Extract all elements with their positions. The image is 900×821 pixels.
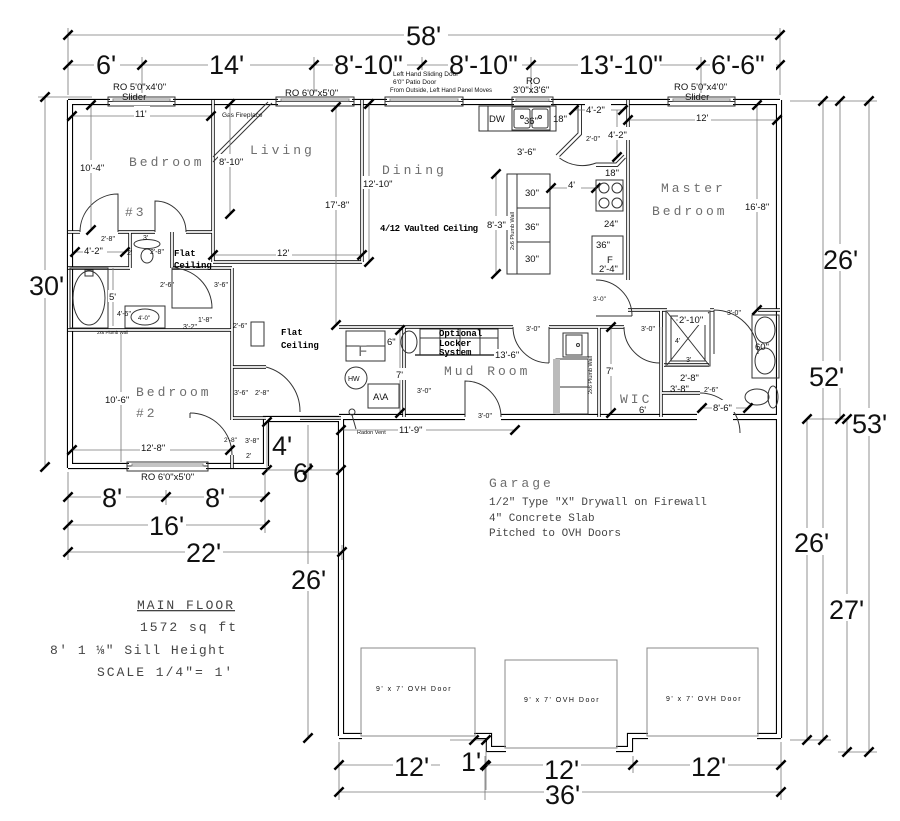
kitchen counter top: [479, 106, 556, 131]
svg-text:4': 4': [568, 180, 575, 191]
dim 4': [266, 422, 268, 470]
svg-text:WIC: WIC: [620, 392, 652, 407]
dim 6': [267, 469, 341, 471]
fridge: [592, 236, 623, 275]
svg-text:2': 2': [246, 453, 251, 460]
svg-text:4'-2": 4'-2": [586, 105, 605, 116]
svg-text:4': 4': [272, 431, 292, 461]
dim 53': [868, 101, 870, 752]
svg-text:2x6 Plumb Wall: 2x6 Plumb Wall: [97, 330, 128, 335]
toilet room fixtures: [134, 235, 164, 263]
svg-text:3': 3': [143, 235, 148, 242]
dim 11'-9": [336, 422, 519, 436]
svg-text:11'-9": 11'-9": [399, 425, 423, 436]
svg-text:4" Concrete Slab: 4" Concrete Slab: [489, 513, 595, 525]
radon vent: [349, 409, 355, 415]
svg-text:3'-0": 3'-0": [593, 296, 607, 303]
svg-text:1572 sq ft: 1572 sq ft: [140, 620, 238, 635]
extension lines top: [68, 28, 780, 95]
svg-text:7': 7': [396, 370, 403, 381]
svg-text:Left Hand Sliding Door: Left Hand Sliding Door: [393, 71, 459, 78]
svg-text:Flat: Flat: [174, 249, 196, 259]
svg-text:4'-6": 4'-6": [117, 311, 131, 318]
svg-text:2'-6": 2'-6": [233, 323, 247, 330]
dim 26' (garage left): [307, 425, 309, 738]
kitchen island: [507, 174, 550, 274]
svg-text:2'-6": 2'-6": [704, 387, 718, 394]
svg-text:58': 58': [406, 21, 441, 51]
svg-text:52': 52': [809, 362, 844, 392]
svg-text:12'-10": 12'-10": [363, 179, 392, 190]
dim 8'-3" island: [486, 169, 510, 278]
dim 17'-8": [324, 102, 354, 329]
svg-text:3'-6": 3'-6": [517, 147, 536, 158]
svg-text:3'0"x3'6": 3'0"x3'6": [513, 85, 549, 96]
svg-text:30": 30": [525, 188, 539, 199]
svg-text:3'-8": 3'-8": [670, 384, 689, 395]
svg-text:2'-0": 2'-0": [586, 136, 600, 143]
svg-text:27': 27': [829, 595, 864, 625]
patio door: [385, 97, 463, 106]
svg-text:26': 26': [823, 245, 858, 275]
AA unit: [368, 384, 399, 408]
svg-text:6'0" Patio Door: 6'0" Patio Door: [393, 79, 437, 86]
OVH door 3: [647, 648, 758, 736]
dim 5' tub: [108, 268, 120, 326]
svg-text:3'-0": 3'-0": [641, 326, 655, 333]
svg-text:SCALE 1/4"= 1': SCALE 1/4"= 1': [97, 665, 234, 680]
fireplace diagonal: [213, 102, 272, 162]
svg-text:Bedroom: Bedroom: [136, 385, 212, 400]
svg-text:9' x 7' OVH Door: 9' x 7' OVH Door: [376, 686, 452, 693]
dim 1': [450, 739, 486, 741]
svg-text:HW: HW: [348, 376, 360, 383]
svg-text:8'-3": 8'-3": [487, 220, 506, 231]
dim 27': [846, 419, 848, 752]
svg-text:11': 11': [135, 109, 147, 120]
svg-text:53': 53': [852, 409, 887, 439]
svg-text:2'-8": 2'-8": [150, 249, 164, 256]
svg-text:2x6 Plumb Wall: 2x6 Plumb Wall: [588, 356, 594, 394]
extension lines: [338, 742, 340, 800]
svg-text:DW: DW: [489, 114, 505, 125]
svg-text:8'-10": 8'-10": [219, 157, 243, 168]
svg-text:Master: Master: [661, 181, 726, 196]
svg-text:4'-0": 4'-0": [138, 316, 150, 322]
svg-text:3': 3': [686, 357, 691, 364]
dim row 2: [63, 50, 784, 80]
svg-text:3'-8": 3'-8": [245, 438, 259, 445]
window W4 master slider: [668, 97, 735, 106]
svg-text:Bedroom: Bedroom: [652, 204, 728, 219]
svg-text:5': 5': [109, 292, 116, 303]
svg-text:Flat: Flat: [281, 328, 303, 338]
bath door arc: [700, 393, 740, 433]
dim 7' utility: [395, 325, 407, 417]
svg-text:12': 12': [696, 113, 709, 124]
svg-text:12': 12': [691, 752, 726, 782]
svg-text:12': 12': [394, 752, 429, 782]
HW tank: [345, 367, 367, 389]
svg-text:Mud Room: Mud Room: [444, 364, 530, 379]
svg-text:Slider: Slider: [122, 92, 146, 103]
svg-text:3'-6": 3'-6": [234, 390, 248, 397]
dim 16'-8" master: [744, 100, 774, 314]
svg-text:17'-8": 17'-8": [325, 200, 349, 211]
svg-text:9' x 7' OVH Door: 9' x 7' OVH Door: [524, 697, 600, 704]
dim 26' upper (house depth): [839, 101, 841, 419]
window W2 living: [276, 97, 354, 106]
svg-text:6': 6': [293, 458, 313, 488]
svg-text:12': 12': [277, 248, 290, 259]
svg-text:Bedroom: Bedroom: [129, 155, 205, 170]
svg-text:RO 6'0"x5'0": RO 6'0"x5'0": [285, 88, 338, 99]
svg-text:Dining: Dining: [382, 163, 447, 178]
dim 8'-10 fireplace: [218, 99, 246, 218]
svg-text:60": 60": [755, 342, 769, 353]
svg-text:4'-2": 4'-2": [608, 130, 627, 141]
dim 58' overall: [63, 20, 784, 51]
door bed3 entry: [155, 201, 186, 232]
bath2 door arc: [172, 268, 212, 308]
svg-text:Slider: Slider: [685, 92, 709, 103]
svg-text:9' x 7' OVH Door: 9' x 7' OVH Door: [666, 696, 742, 703]
dim 12'-10": [362, 99, 392, 266]
svg-text:26': 26': [794, 528, 829, 558]
svg-text:13'-10": 13'-10": [579, 50, 663, 80]
hall door arc (mud to hall): [513, 327, 549, 363]
tub: [70, 268, 108, 328]
svg-text:10'-6": 10'-6": [105, 395, 129, 406]
svg-text:3'-0": 3'-0": [478, 413, 492, 420]
shower dims: [676, 313, 708, 326]
kitchen sink: [512, 107, 550, 130]
svg-text:4'-2": 4'-2": [84, 246, 103, 257]
svg-text:2'-10": 2'-10": [679, 315, 703, 326]
door bed2: [190, 413, 232, 455]
svg-text:Ceiling: Ceiling: [281, 341, 319, 351]
vanity 60": [752, 315, 779, 378]
svg-text:36': 36': [545, 780, 580, 810]
window bed2 RO 6'0"x5'0": [127, 462, 208, 471]
hall closet: [251, 322, 264, 346]
svg-text:6": 6": [387, 337, 396, 348]
svg-text:18": 18": [553, 114, 567, 125]
dim 26' lower (garage depth): [806, 419, 808, 740]
svg-text:2'-4": 2'-4": [599, 264, 618, 275]
svg-text:6': 6': [96, 50, 116, 80]
svg-text:Ceiling: Ceiling: [174, 261, 212, 271]
svg-text:10'-4": 10'-4": [80, 163, 104, 174]
svg-text:8': 8': [102, 483, 122, 513]
svg-text:From Outside, Left Hand Panel: From Outside, Left Hand Panel Moves: [390, 88, 492, 94]
svg-text:2'-8": 2'-8": [255, 390, 269, 397]
extension lines: [67, 472, 69, 560]
svg-text:36": 36": [525, 222, 539, 233]
furnace F: [346, 331, 396, 361]
closet door arc: [266, 367, 300, 412]
svg-text:14': 14': [209, 50, 244, 80]
svg-text:MAIN FLOOR: MAIN FLOOR: [137, 598, 235, 613]
stove: [596, 168, 623, 230]
dim 36': [339, 791, 781, 793]
svg-text:8'-10": 8'-10": [449, 50, 518, 80]
window W3 kitchen: [512, 97, 553, 106]
svg-text:16': 16': [149, 511, 184, 541]
dim 22': [68, 551, 342, 553]
svg-text:2x6 Plumb Wall: 2x6 Plumb Wall: [510, 212, 516, 250]
svg-text:1'-8": 1'-8": [198, 317, 212, 324]
svg-text:8'-6": 8'-6": [713, 403, 732, 414]
dim 16': [68, 524, 265, 526]
dim 4' stove: [546, 178, 600, 193]
svg-text:30": 30": [525, 254, 539, 265]
svg-text:2'-6": 2'-6": [160, 282, 174, 289]
svg-text:8' 1 ⅛" Sill Height: 8' 1 ⅛" Sill Height: [50, 643, 227, 658]
svg-text:30': 30': [29, 271, 64, 301]
OVH door 1: [361, 648, 475, 736]
toilet master: [745, 386, 778, 408]
water softener: [401, 331, 417, 353]
svg-text:Radon Vent: Radon Vent: [357, 430, 386, 436]
window W1 bed3 slider: [108, 97, 175, 106]
svg-text:2'-8": 2'-8": [101, 236, 115, 243]
svg-text:#2: #2: [136, 406, 158, 421]
OVH door 2: [505, 660, 617, 748]
svg-text:2'-8": 2'-8": [680, 373, 699, 384]
svg-text:3'-0": 3'-0": [727, 310, 741, 317]
dim 8' 8': [68, 496, 265, 498]
svg-text:26': 26': [291, 565, 326, 595]
dim 52': [822, 101, 824, 740]
svg-text:Garage: Garage: [489, 476, 554, 491]
svg-text:Gas Fireplace: Gas Fireplace: [222, 112, 263, 119]
svg-text:6': 6': [639, 405, 646, 416]
svg-text:7': 7': [606, 366, 613, 377]
dim 12' living: [208, 245, 366, 260]
svg-text:3'-6": 3'-6": [214, 282, 228, 289]
door mud->garage arc: [465, 381, 501, 417]
svg-text:System: System: [439, 348, 472, 358]
svg-text:12'-8": 12'-8": [141, 443, 165, 454]
svg-text:22': 22': [186, 538, 221, 568]
door bed3 closet: [80, 194, 118, 232]
stairs / pantry cabinet right of mudroom: [553, 359, 588, 414]
svg-text:A\A: A\A: [373, 392, 389, 403]
lockers: [415, 329, 513, 355]
svg-text:3'-0": 3'-0": [526, 326, 540, 333]
svg-text:Pitched to OVH Doors: Pitched to OVH Doors: [489, 528, 621, 540]
svg-text:#3: #3: [125, 205, 147, 220]
svg-text:6'-6": 6'-6": [711, 50, 765, 80]
svg-text:1/2" Type "X" Drywall on Firew: 1/2" Type "X" Drywall on Firewall: [489, 497, 707, 509]
dim 12' master: [623, 110, 781, 125]
svg-text:3'-2": 3'-2": [183, 324, 197, 331]
svg-text:2': 2': [127, 250, 132, 257]
dims kitchen top right: [569, 102, 633, 162]
svg-text:3'-0": 3'-0": [417, 388, 431, 395]
svg-text:4': 4': [675, 338, 680, 345]
shower: [666, 311, 710, 366]
svg-text:8': 8': [205, 483, 225, 513]
master bath door arc: [714, 310, 758, 354]
svg-text:18": 18": [605, 168, 619, 179]
dim 12' x3: [339, 764, 440, 766]
corner pantry: [556, 105, 626, 167]
svg-text:13'-6": 13'-6": [495, 350, 519, 361]
svg-text:2'-8": 2'-8": [224, 437, 238, 444]
svg-text:RO 6'0"x5'0": RO 6'0"x5'0": [141, 472, 194, 483]
svg-text:1': 1': [461, 747, 481, 777]
svg-text:F: F: [358, 343, 371, 361]
entry door garage->mud: [563, 333, 588, 357]
master entry arc: [596, 280, 632, 316]
svg-text:16'-8": 16'-8": [745, 202, 769, 213]
svg-text:36": 36": [596, 240, 610, 251]
wic door arc: [624, 327, 660, 363]
svg-text:4/12 Vaulted Ceiling: 4/12 Vaulted Ceiling: [380, 224, 478, 234]
svg-text:Living: Living: [250, 143, 315, 158]
svg-text:24": 24": [604, 219, 618, 230]
svg-text:Optional: Optional: [439, 329, 483, 339]
vanity bath2: [117, 306, 165, 328]
svg-text:36": 36": [524, 116, 538, 127]
